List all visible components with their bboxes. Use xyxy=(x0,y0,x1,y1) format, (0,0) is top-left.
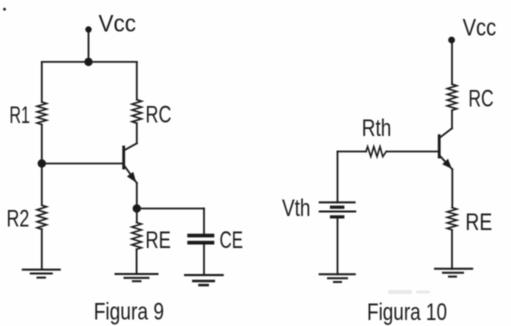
transistor Q1 emitter with arrow xyxy=(125,166,137,183)
ground R2 xyxy=(23,270,60,278)
ground RE fig10 xyxy=(435,269,472,277)
wire RE to ground xyxy=(451,230,453,269)
capacitor CE xyxy=(187,234,214,245)
wire base right segment xyxy=(386,151,439,153)
resistor RE xyxy=(132,223,142,250)
resistor R2 xyxy=(37,205,47,229)
wire base left segment xyxy=(338,151,367,153)
wire left rail lower xyxy=(41,164,43,206)
svg-text:Figura 9: Figura 9 xyxy=(94,298,164,325)
wire left rail middle xyxy=(41,125,43,164)
ground Vth xyxy=(320,274,355,282)
node Vcc junction xyxy=(84,58,92,66)
svg-text:RC: RC xyxy=(146,102,172,129)
wire collector diagonal xyxy=(125,143,137,150)
resistor RC xyxy=(447,84,457,110)
wire top rail xyxy=(42,61,137,63)
wire RE top xyxy=(136,209,138,223)
svg-text:RE: RE xyxy=(465,209,492,236)
svg-text:R1: R1 xyxy=(9,102,30,129)
svg-text:Figura 10: Figura 10 xyxy=(367,299,447,326)
wire RE to ground xyxy=(136,249,138,274)
transistor Q2 bar xyxy=(438,136,441,157)
node base junction xyxy=(38,159,46,167)
resistor RC xyxy=(132,100,142,124)
svg-text:Vcc: Vcc xyxy=(99,11,137,38)
wire CE bottom xyxy=(203,245,205,276)
wire collector vertical xyxy=(451,110,453,128)
wire emitter to CE xyxy=(137,208,204,210)
wire emitter vertical xyxy=(451,169,453,207)
svg-text:CE: CE xyxy=(220,227,244,254)
speck top-left xyxy=(3,8,6,11)
resistor RE xyxy=(447,208,457,230)
wire collector vertical xyxy=(136,123,138,143)
wire Vth to ground xyxy=(337,219,339,275)
smudge marks (faint artifacts) xyxy=(388,290,430,294)
Vcc terminal dot xyxy=(448,37,455,44)
wire Vcc to RC xyxy=(451,40,453,84)
wire left rail upper xyxy=(41,62,43,102)
wire CE top xyxy=(203,209,205,234)
wire Vth vertical upper xyxy=(337,152,339,203)
svg-text:Rth: Rth xyxy=(362,115,392,142)
wire base xyxy=(42,163,124,165)
svg-text:RE: RE xyxy=(145,227,171,254)
svg-text:Vth: Vth xyxy=(282,195,311,222)
resistor Rth xyxy=(366,147,386,157)
wire emitter vertical xyxy=(136,183,138,209)
svg-text:Vcc: Vcc xyxy=(463,14,497,41)
wire collector diagonal xyxy=(440,128,452,137)
svg-text:RC: RC xyxy=(468,85,493,112)
wire right rail upper xyxy=(136,62,138,100)
resistor R1 xyxy=(37,102,47,125)
svg-text:R2: R2 xyxy=(7,205,30,232)
Vcc terminal dot xyxy=(85,26,91,32)
ground RE xyxy=(116,274,158,281)
ground CE xyxy=(185,275,223,285)
transistor Q1 bar xyxy=(122,147,125,168)
wire R2 to ground xyxy=(41,229,43,270)
node emitter junction xyxy=(133,204,141,212)
wire Vcc stub xyxy=(88,30,90,62)
transistor Q2 emitter with arrow xyxy=(440,156,452,169)
battery Vth xyxy=(320,202,356,218)
